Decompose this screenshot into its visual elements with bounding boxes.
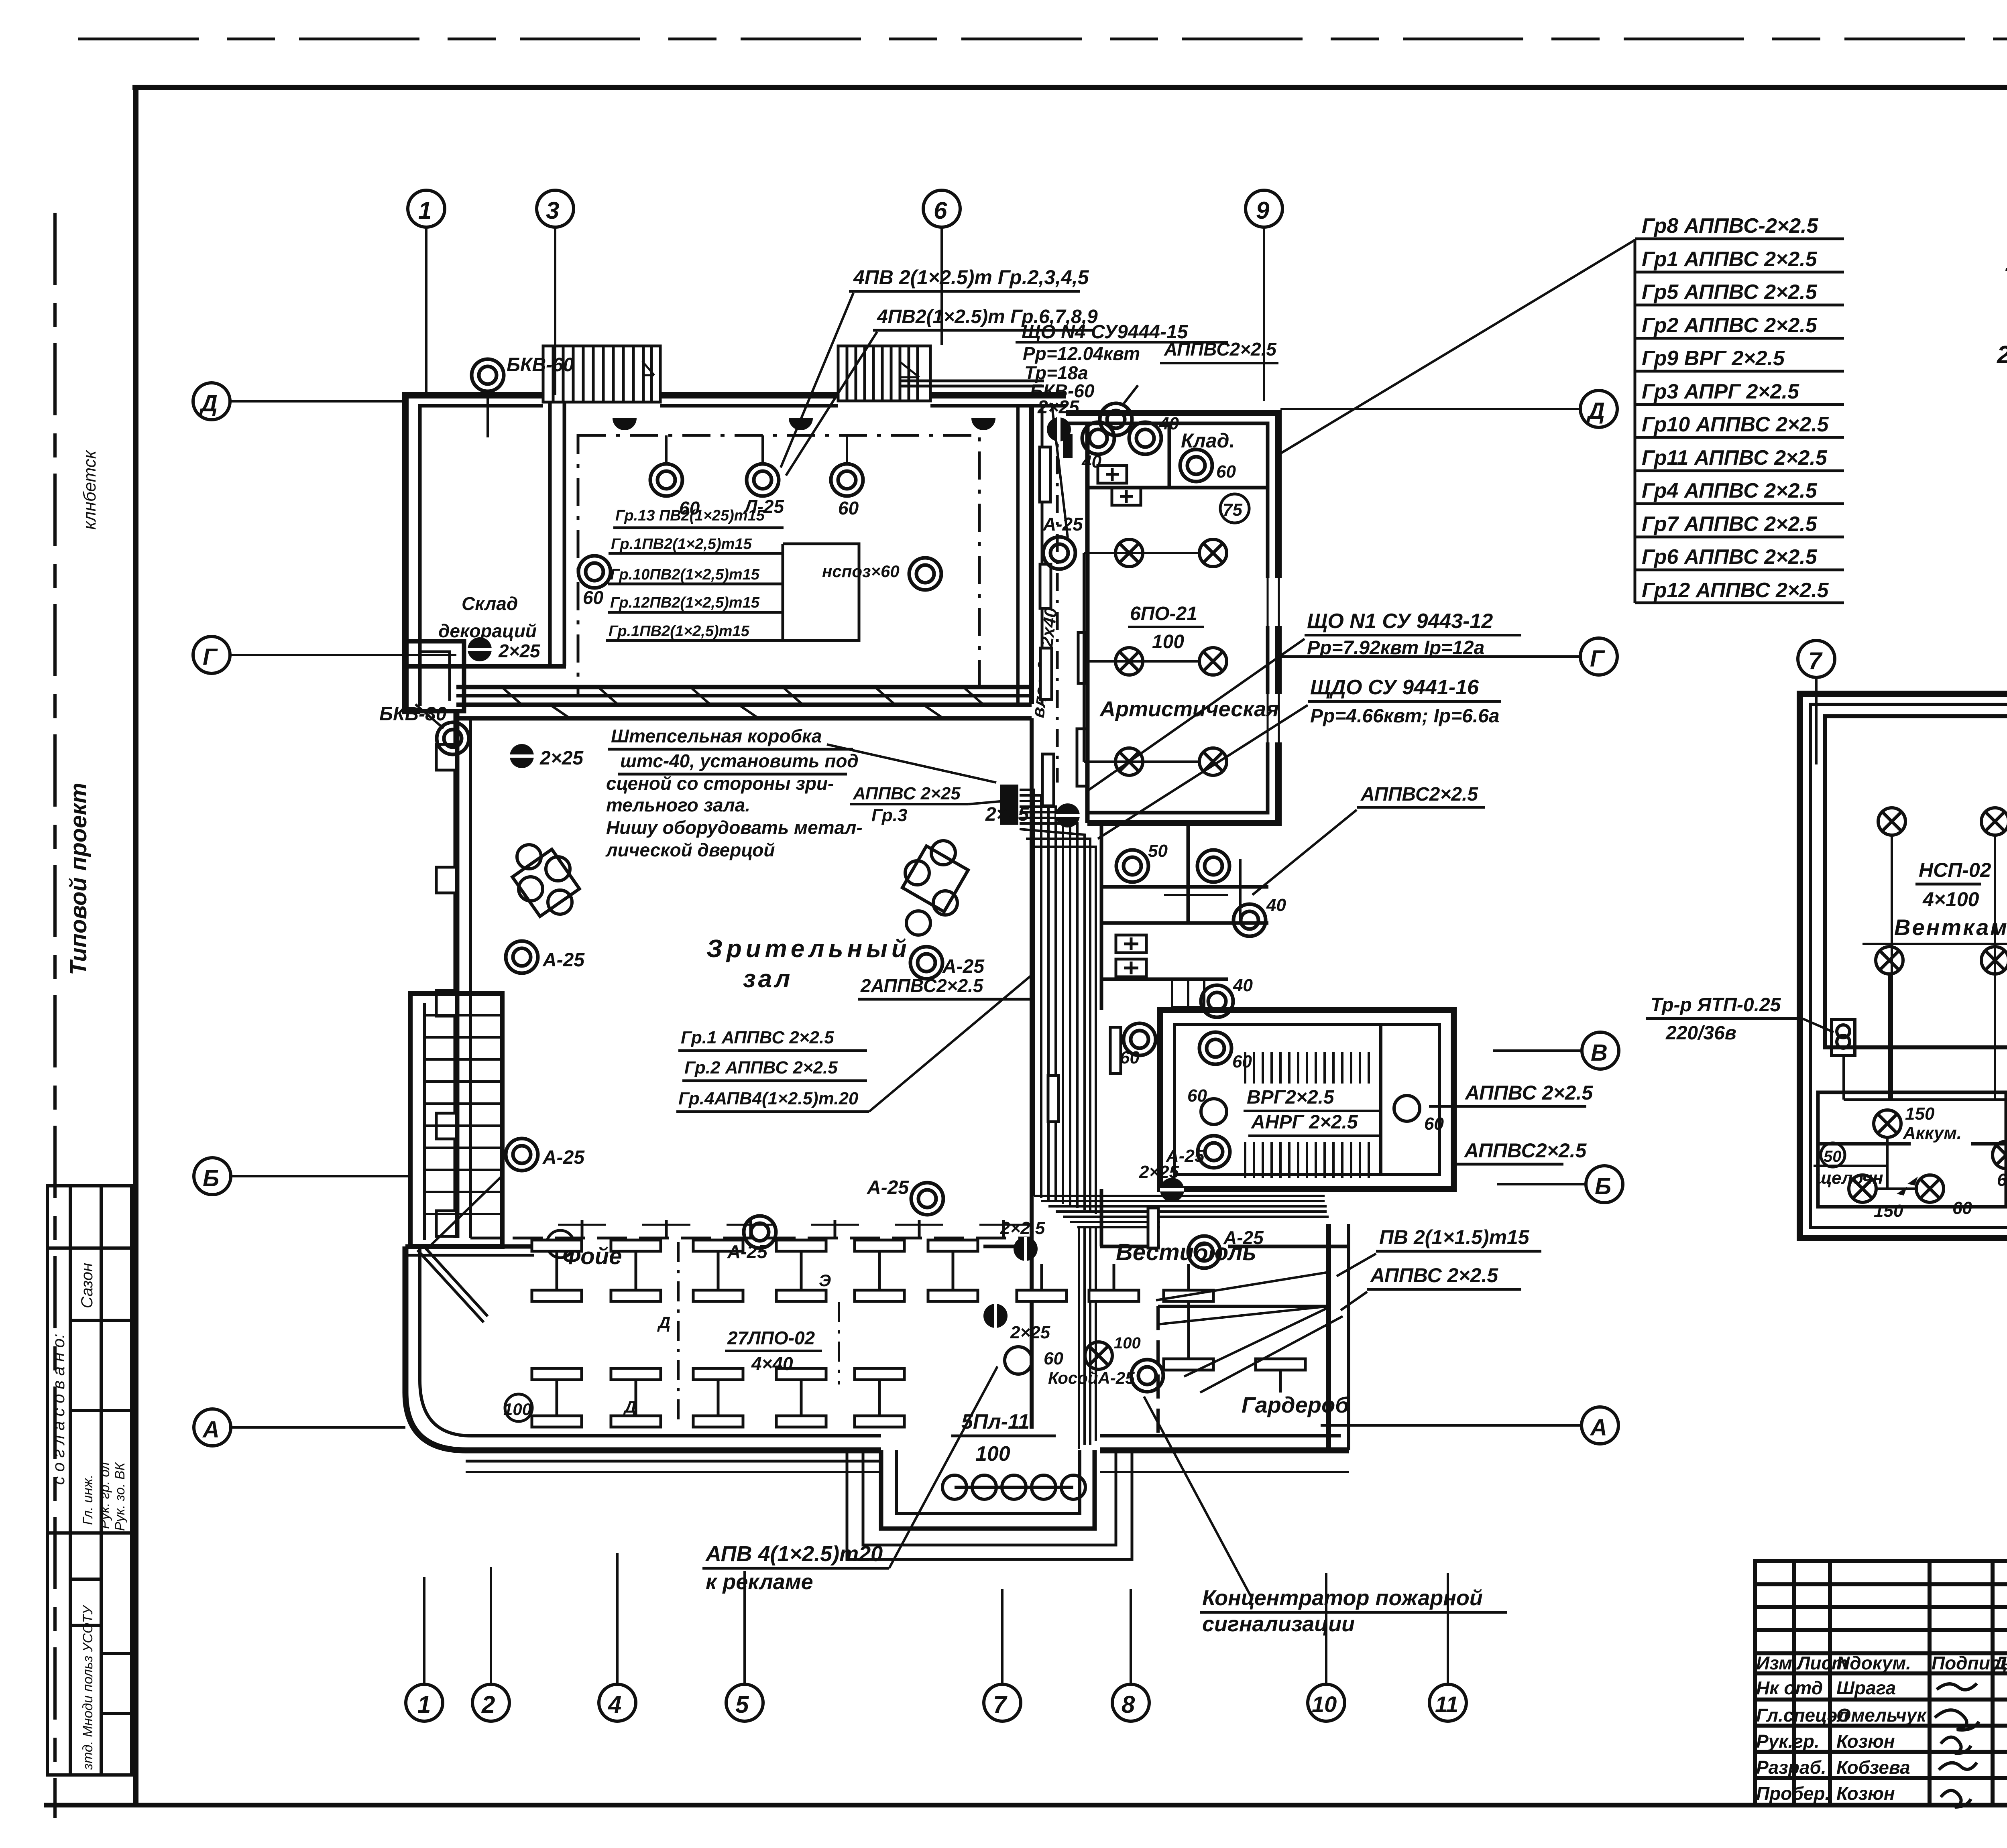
grid bubble 8 bottom bbox=[1112, 1589, 1149, 1721]
stage lamps bbox=[650, 464, 700, 518]
grid bubble 2 bottom bbox=[472, 1567, 509, 1721]
svg-text:Г: Г bbox=[1590, 646, 1605, 672]
wall left wing outer bbox=[405, 395, 543, 711]
wall stage right / corridor left bbox=[1032, 406, 1042, 704]
svg-text:Разраб.: Разраб. bbox=[1756, 1757, 1826, 1778]
svg-text:А-25: А-25 bbox=[1223, 1227, 1264, 1248]
svg-text:4: 4 bbox=[608, 1691, 621, 1718]
sklad dekoracii label bbox=[438, 593, 537, 641]
svg-text:к рекламе: к рекламе bbox=[706, 1570, 813, 1594]
svg-text:Козюн: Козюн bbox=[1836, 1731, 1895, 1752]
projector cluster right bbox=[902, 841, 968, 935]
svg-text:2. Спецификацию см. лист ЭЛ-5.: 2. Спецификацию см. лист ЭЛ-5. bbox=[1997, 341, 2007, 369]
svg-text:Гр.4АПВ4(1×2.5)т.20: Гр.4АПВ4(1×2.5)т.20 bbox=[678, 1089, 859, 1108]
frame bottom border bbox=[44, 1803, 2007, 1807]
basement lower-left room bbox=[1818, 1092, 2006, 1207]
svg-text:В: В bbox=[1591, 1040, 1608, 1066]
svg-text:40: 40 bbox=[1159, 414, 1179, 433]
svg-text:Г: Г bbox=[203, 644, 218, 670]
svg-text:А: А bbox=[202, 1417, 220, 1443]
grid bubble 10 bottom bbox=[1308, 1573, 1345, 1721]
svg-text:Сазон: Сазон bbox=[78, 1263, 96, 1308]
BKV-60 top left lamp bbox=[472, 354, 574, 437]
auditorium left wall bbox=[456, 711, 470, 1238]
svg-text:60: 60 bbox=[1120, 1048, 1140, 1067]
porch nested outline bbox=[847, 1450, 1132, 1559]
svg-text:сценой со стороны зри-: сценой со стороны зри- bbox=[606, 773, 834, 794]
svg-text:40: 40 bbox=[1233, 976, 1253, 995]
svg-text:50: 50 bbox=[1824, 1148, 1842, 1165]
grid bubble 11 bottom bbox=[1429, 1573, 1466, 1721]
left exterior stair bbox=[410, 994, 502, 1246]
left wing bottom protrusion bbox=[405, 641, 464, 711]
svg-text:11: 11 bbox=[1435, 1691, 1458, 1717]
vestibule label bbox=[1116, 1239, 1256, 1265]
plus boxes bbox=[1098, 466, 1141, 505]
grid bubble A right bbox=[1321, 1407, 1618, 1444]
svg-text:тельного зала.: тельного зала. bbox=[606, 795, 750, 815]
svg-text:Гр3 АПРГ 2×2.5: Гр3 АПРГ 2×2.5 bbox=[1642, 380, 1799, 403]
svg-text:75: 75 bbox=[1223, 500, 1242, 520]
label APV k reklame bbox=[702, 1366, 997, 1594]
svg-text:Гр4 АППВС 2×2.5: Гр4 АППВС 2×2.5 bbox=[1642, 479, 1818, 502]
projector cluster left bbox=[512, 845, 579, 917]
svg-text:Гр2 АППВС 2×2.5: Гр2 АППВС 2×2.5 bbox=[1642, 314, 1818, 337]
svg-text:Гр6 АППВС 2×2.5: Гр6 АППВС 2×2.5 bbox=[1642, 545, 1818, 569]
foyer circuit dashdot lines bbox=[678, 1242, 839, 1427]
svg-text:А-25: А-25 bbox=[727, 1241, 768, 1262]
svg-text:Пробер.: Пробер. bbox=[1756, 1783, 1830, 1804]
circle 100 foyer bbox=[503, 1394, 532, 1421]
auditorium group rows bbox=[676, 975, 1032, 1112]
foyer bottom wall bbox=[466, 1436, 881, 1461]
svg-text:60: 60 bbox=[1424, 1114, 1444, 1134]
svg-text:Тр-р ЯТП-0.25: Тр-р ЯТП-0.25 bbox=[1651, 994, 1781, 1016]
svg-text:Рук. зо. ВК: Рук. зо. ВК bbox=[112, 1462, 128, 1531]
svg-text:2×25: 2×25 bbox=[498, 640, 541, 661]
cable list rows text bbox=[1642, 214, 1829, 602]
grid bubble 7 bottom bbox=[984, 1589, 1021, 1721]
foyer lamp A-25 bbox=[727, 1216, 776, 1262]
label koncentrator bbox=[1144, 1397, 1507, 1636]
left margin rotated annotation bbox=[80, 449, 100, 530]
switch near stair bbox=[1139, 1162, 1184, 1202]
lamp BKV-60 right top bbox=[1100, 385, 1138, 435]
APPVS 2x25 gr3 label bbox=[673, 762, 686, 784]
svg-text:Гр.10ПВ2(1×2,5)т15: Гр.10ПВ2(1×2,5)т15 bbox=[610, 566, 760, 583]
middle rooms small furniture bbox=[1164, 859, 1240, 1007]
svg-text:2×25: 2×25 bbox=[1139, 1162, 1179, 1182]
svg-text:декораций: декораций bbox=[438, 620, 537, 641]
grid bubble G right bbox=[1280, 638, 1617, 675]
svg-text:Омельчук: Омельчук bbox=[1836, 1705, 1927, 1726]
left bottom approval table bbox=[47, 1186, 132, 1775]
label APPVS mid right bbox=[1252, 784, 1485, 895]
svg-text:ВРГ2×2.5: ВРГ2×2.5 bbox=[1247, 1087, 1335, 1108]
frame left border bbox=[133, 87, 138, 1806]
svg-text:АППВС 2×2.5: АППВС 2×2.5 bbox=[1464, 1082, 1593, 1104]
ventkamera room bbox=[1825, 716, 2007, 1047]
svg-text:Шрага: Шрага bbox=[1836, 1677, 1896, 1698]
grid bubble B left bbox=[194, 1158, 410, 1195]
svg-text:Козюн: Козюн bbox=[1836, 1783, 1895, 1804]
svg-text:Рр=4.66квт; Iр=6.6а: Рр=4.66квт; Iр=6.6а bbox=[1310, 705, 1500, 727]
switch arrows basement bbox=[1897, 1177, 1918, 1195]
label SCHO N1 bbox=[1089, 610, 1521, 790]
switch 2x25 sklad bbox=[468, 637, 541, 661]
small luminaires in corridor bbox=[1040, 447, 1158, 1248]
stage curtain dash-dot bbox=[578, 435, 979, 695]
svg-text:АПВ 4(1×2.5)т20: АПВ 4(1×2.5)т20 bbox=[705, 1542, 883, 1566]
svg-text:60: 60 bbox=[1187, 1086, 1207, 1106]
svg-text:Гр.1 АППВС 2×2.5: Гр.1 АППВС 2×2.5 bbox=[681, 1028, 834, 1047]
svg-text:лической дверцой: лической дверцой bbox=[605, 840, 775, 860]
ventkamera label bbox=[1862, 915, 2007, 944]
svg-text:4×100: 4×100 bbox=[1922, 888, 1979, 911]
svg-text:с о г л а с о в а н о:: с о г л а с о в а н о: bbox=[49, 1334, 68, 1485]
transformer label bbox=[1646, 994, 1834, 1044]
top labels 4PV bbox=[781, 266, 1098, 476]
title block texts bbox=[1756, 1653, 2007, 1804]
switch 2x25 mid corridor bbox=[985, 803, 1080, 827]
label APPVS bottom right bbox=[1341, 1264, 1521, 1310]
svg-text:Б: Б bbox=[203, 1165, 219, 1191]
partition sklad dekoracii bbox=[405, 403, 566, 666]
grid bubble G left bbox=[193, 636, 456, 673]
svg-text:Рук.гр.: Рук.гр. bbox=[1756, 1731, 1820, 1752]
svg-text:А: А bbox=[1590, 1415, 1607, 1441]
stair top-left hatch bbox=[543, 346, 660, 402]
artist labels bbox=[1128, 603, 1204, 653]
garderob partition bbox=[1158, 1306, 1329, 1436]
svg-text:А-25: А-25 bbox=[1042, 514, 1083, 535]
panel box dark 2 bbox=[1000, 785, 1018, 825]
svg-text:Б: Б bbox=[1595, 1173, 1611, 1199]
panel box SCHO N4 on wall bbox=[1063, 434, 1073, 458]
auditorium lamp A-25 upper-right bbox=[910, 947, 985, 979]
auditorium bottom dash line bbox=[470, 1237, 1032, 1240]
svg-text:7: 7 bbox=[1808, 647, 1823, 674]
grid bubble 3 top bbox=[537, 190, 574, 395]
svg-text:Аккум.: Аккум. bbox=[1903, 1123, 1962, 1143]
label 2APPVS bbox=[858, 975, 1032, 999]
svg-text:Д: Д bbox=[199, 390, 218, 417]
grid bubble 1 bottom bbox=[406, 1577, 443, 1721]
auditorium lamp A-25 lower-left bbox=[506, 1138, 585, 1171]
svg-text:АППВС 2×25: АППВС 2×25 bbox=[853, 784, 961, 803]
porch label 5PL-11 bbox=[951, 1410, 1056, 1466]
svg-text:АНРГ 2×2.5: АНРГ 2×2.5 bbox=[1251, 1112, 1358, 1133]
lamp bottom corridor bbox=[1005, 1347, 1063, 1374]
grid bubble 4 bottom bbox=[599, 1553, 636, 1721]
svg-text:клнбетск: клнбетск bbox=[80, 449, 100, 530]
grid bubble 1 top bbox=[408, 190, 445, 395]
svg-text:60: 60 bbox=[838, 498, 859, 518]
svg-text:сигнализации: сигнализации bbox=[1202, 1612, 1355, 1636]
vestibule top wall bbox=[1100, 1245, 1349, 1248]
schelochn lamps bbox=[1849, 1175, 1903, 1221]
schelochn labels bbox=[1814, 1143, 1887, 1188]
svg-text:ЩДО СУ 9441-16: ЩДО СУ 9441-16 bbox=[1310, 676, 1479, 699]
svg-text:Клад.: Клад. bbox=[1181, 429, 1235, 452]
wing right wall windows bbox=[1264, 578, 1282, 742]
svg-text:Гр.2 АППВС 2×2.5: Гр.2 АППВС 2×2.5 bbox=[684, 1058, 838, 1077]
switch 2x2.5 corridor bottom bbox=[1000, 1218, 1045, 1261]
svg-text:Д: Д bbox=[623, 1397, 636, 1416]
svg-text:Нишу оборудовать метал-: Нишу оборудовать метал- bbox=[606, 817, 863, 838]
svg-text:2×25: 2×25 bbox=[1037, 396, 1080, 417]
svg-text:9: 9 bbox=[1256, 197, 1270, 224]
svg-text:Гр5 АППВС 2×2.5: Гр5 АППВС 2×2.5 bbox=[1642, 281, 1818, 304]
svg-text:АППВС2×2.5: АППВС2×2.5 bbox=[1164, 339, 1277, 360]
svg-text:Гр1 АППВС 2×2.5: Гр1 АППВС 2×2.5 bbox=[1642, 248, 1818, 271]
proscenium wall band bbox=[456, 687, 1032, 718]
svg-text:ЩО N4 СУ9444-15: ЩО N4 СУ9444-15 bbox=[1022, 321, 1189, 343]
frame top border bbox=[132, 85, 2007, 90]
transformer box bbox=[1832, 1019, 1855, 1055]
stair block V outer bbox=[1160, 1010, 1454, 1189]
svg-text:Рр=12.04квт: Рр=12.04квт bbox=[1023, 343, 1140, 364]
vestibule bottom wall bbox=[1100, 1436, 1349, 1450]
top right wing lamps bbox=[1081, 422, 1114, 472]
wall top right of stage bbox=[930, 395, 1066, 406]
svg-text:2: 2 bbox=[481, 1691, 495, 1718]
bottom leader lines cluster bbox=[1156, 1272, 1343, 1393]
svg-text:Гардероб: Гардероб bbox=[1242, 1392, 1350, 1417]
ventkamera wiring stems bbox=[1844, 835, 2007, 1100]
svg-text:Гр.1ПВ2(1×2,5)т15: Гр.1ПВ2(1×2,5)т15 bbox=[611, 536, 752, 553]
note text block shtepselnaya bbox=[605, 726, 863, 860]
stage wiring dashes bbox=[666, 435, 847, 464]
ventkamera lamps bbox=[1878, 808, 1905, 835]
svg-text:Типовой проект: Типовой проект bbox=[65, 783, 92, 975]
switch 2x25 top center bbox=[1037, 396, 1080, 441]
svg-text:Гр.12ПВ2(1×2,5)т15: Гр.12ПВ2(1×2,5)т15 bbox=[610, 594, 760, 611]
partition klad room bbox=[1087, 423, 1268, 488]
svg-text:60: 60 bbox=[1232, 1052, 1252, 1071]
A-25 lamp top corridor bbox=[1042, 514, 1083, 569]
svg-text:Гр12 АППВС 2×2.5: Гр12 АППВС 2×2.5 bbox=[1642, 579, 1829, 602]
label PV2 1x1.5 bbox=[1337, 1226, 1541, 1276]
ramp lines bottom-left bbox=[417, 1248, 488, 1322]
foyer luminaires row1 bbox=[532, 1240, 582, 1301]
svg-text:Рук. гр. ол: Рук. гр. ол bbox=[97, 1462, 112, 1529]
note 1 line 1 bbox=[2005, 249, 2007, 276]
svg-text:2×25: 2×25 bbox=[985, 804, 1029, 825]
sheet outer dashed top edge bbox=[78, 38, 2007, 41]
stair V lamps bbox=[1187, 1086, 1227, 1124]
svg-text:Гр.13 ПВ2(1×25)т15: Гр.13 ПВ2(1×25)т15 bbox=[615, 507, 765, 524]
auditorium lamp A-25 lower-right bbox=[867, 1177, 943, 1215]
svg-text:8: 8 bbox=[1122, 1691, 1135, 1718]
svg-text:Нк отд: Нк отд bbox=[1756, 1677, 1823, 1698]
svg-text:7: 7 bbox=[993, 1691, 1008, 1718]
vestibule right wall bbox=[1329, 1224, 1349, 1450]
svg-text:1. Примечания, условные обозна: 1. Примечания, условные обозначения bbox=[2005, 249, 2007, 276]
svg-text:А-25: А-25 bbox=[867, 1177, 909, 1198]
svg-text:Nдокум.: Nдокум. bbox=[1836, 1653, 1911, 1673]
corridor vertical text vlso bbox=[1028, 606, 1061, 719]
svg-text:Гр10 АППВС 2×2.5: Гр10 АППВС 2×2.5 bbox=[1642, 413, 1829, 436]
switch 2x25 left bbox=[510, 744, 584, 769]
wall top middle bbox=[660, 395, 838, 406]
svg-text:220/36в: 220/36в bbox=[1665, 1023, 1736, 1044]
labels SCHO N4 bbox=[1016, 321, 1278, 538]
svg-text:ЩО N1 СУ 9443-12: ЩО N1 СУ 9443-12 bbox=[1307, 610, 1493, 633]
artist room lamps bbox=[1115, 539, 1143, 567]
foyer label bbox=[562, 1243, 622, 1269]
svg-text:Артистическая: Артистическая bbox=[1099, 697, 1279, 721]
foyer top wall bbox=[405, 1246, 1032, 1255]
lamp kosa bbox=[1048, 1334, 1163, 1392]
svg-text:100: 100 bbox=[503, 1400, 531, 1419]
auditorium labels bbox=[706, 935, 911, 993]
label SCHDO bbox=[1098, 676, 1501, 839]
svg-text:4×40: 4×40 bbox=[751, 1353, 793, 1374]
svg-text:Гл.спецэл: Гл.спецэл bbox=[1756, 1705, 1849, 1726]
svg-text:50: 50 bbox=[1148, 841, 1168, 861]
terrace line below foyer bbox=[466, 1471, 1349, 1473]
grid bubble 6 top bbox=[923, 190, 960, 345]
svg-text:Д: Д bbox=[657, 1313, 670, 1332]
canopy line top bbox=[901, 381, 1044, 386]
svg-text:1: 1 bbox=[417, 1691, 431, 1718]
svg-text:Зрительный: Зрительный bbox=[706, 935, 911, 963]
akkum lamp bbox=[1874, 1104, 1962, 1143]
foyer left wall rounded bbox=[405, 1246, 472, 1450]
svg-text:БКВ-60: БКВ-60 bbox=[507, 354, 574, 376]
foyer label 27LPO bbox=[725, 1328, 822, 1374]
switch bottom corridor bbox=[983, 1304, 1050, 1342]
svg-text:Гр.1ПВ2(1×2,5)т15: Гр.1ПВ2(1×2,5)т15 bbox=[609, 623, 750, 640]
stair block V hatch bbox=[1245, 1025, 1381, 1178]
signatures squiggles bbox=[1935, 1683, 1979, 1807]
svg-text:НСП-02: НСП-02 bbox=[1919, 859, 1991, 881]
right wing outer wall bbox=[1066, 413, 1278, 823]
svg-text:60: 60 bbox=[1044, 1349, 1063, 1368]
svg-text:нспоз×60: нспоз×60 bbox=[822, 562, 900, 581]
stage group labels bbox=[613, 507, 784, 528]
middle rooms lamps bbox=[1116, 841, 1168, 882]
svg-text:27ЛПО-02: 27ЛПО-02 bbox=[727, 1328, 815, 1348]
auditorium lamp A-25 upper-left bbox=[506, 941, 585, 973]
note 2 bbox=[1997, 341, 2007, 369]
svg-text:150: 150 bbox=[1874, 1201, 1903, 1221]
BKV-80 lamp bottom left bbox=[379, 703, 469, 754]
stair top second hatch bbox=[838, 346, 930, 401]
grid bubble 9 top bbox=[1246, 190, 1282, 401]
svg-text:Д: Д bbox=[1586, 398, 1605, 424]
grid bubble B2 right bbox=[1497, 1166, 1623, 1203]
garderob label bbox=[1242, 1392, 1350, 1417]
svg-text:Гр11 АППВС 2×2.5: Гр11 АППВС 2×2.5 bbox=[1642, 446, 1828, 470]
grid bubble D right bbox=[1280, 390, 1617, 427]
svg-text:А-25: А-25 bbox=[942, 956, 985, 977]
svg-text:5: 5 bbox=[735, 1691, 749, 1718]
svg-text:Дата: Дата bbox=[1992, 1653, 2007, 1673]
auditorium bottom tick marks bbox=[558, 1220, 1028, 1238]
svg-text:Штепсельная коробка: Штепсельная коробка bbox=[611, 726, 822, 746]
stage ceiling half-disc symbols bbox=[613, 418, 995, 430]
svg-text:Гл. инж.: Гл. инж. bbox=[80, 1474, 96, 1525]
svg-text:АППВС2×2.5: АППВС2×2.5 bbox=[1360, 784, 1478, 805]
basement outer wall bbox=[1800, 694, 2007, 1238]
svg-text:60: 60 bbox=[1997, 1170, 2007, 1190]
left table rotated texts bbox=[49, 1334, 68, 1485]
svg-text:2АППВС2×2.5: 2АППВС2×2.5 bbox=[860, 975, 984, 996]
foyer luminaires row2 bbox=[532, 1368, 582, 1427]
svg-text:60: 60 bbox=[583, 587, 604, 608]
vestibule lamp A-25 bbox=[1188, 1227, 1264, 1268]
cable list leader to plan bbox=[1280, 240, 1635, 453]
svg-text:Гр9 ВРГ 2×2.5: Гр9 ВРГ 2×2.5 bbox=[1642, 347, 1785, 370]
svg-text:штс-40, установить под: штс-40, установить под bbox=[620, 750, 859, 771]
basement grid bubble 7 bbox=[1798, 640, 1835, 764]
svg-text:100: 100 bbox=[975, 1442, 1010, 1466]
NSP label bbox=[1915, 859, 1991, 911]
grid bubble A left bbox=[194, 1409, 405, 1446]
riser cable fan from junction bbox=[1020, 790, 1096, 1214]
circle 100 auditorium bbox=[545, 1230, 574, 1258]
corridor walls center bbox=[1018, 406, 1101, 1429]
svg-text:Гр8 АППВС-2×2.5: Гр8 АППВС-2×2.5 bbox=[1642, 214, 1819, 238]
corridor axis dash-dot bbox=[1056, 417, 1059, 783]
svg-text:Концентратор пожарной: Концентратор пожарной bbox=[1202, 1586, 1483, 1610]
number 75 circle bbox=[1220, 494, 1249, 523]
svg-text:Э: Э bbox=[819, 1271, 831, 1290]
left margin label: Типовой проект bbox=[65, 783, 92, 975]
svg-text:60: 60 bbox=[1952, 1198, 1972, 1218]
svg-text:Изм.Лист: Изм.Лист bbox=[1756, 1653, 1848, 1673]
svg-text:А-25: А-25 bbox=[542, 1147, 585, 1168]
svg-text:40: 40 bbox=[1266, 895, 1286, 915]
svg-text:3: 3 bbox=[546, 197, 559, 224]
svg-text:зал: зал bbox=[743, 965, 792, 993]
svg-text:100: 100 bbox=[1114, 1334, 1141, 1352]
svg-text:Кобзева: Кобзева bbox=[1836, 1757, 1910, 1778]
svg-text:2×2.5: 2×2.5 bbox=[1000, 1218, 1045, 1238]
svg-text:2×25: 2×25 bbox=[1010, 1323, 1050, 1342]
svg-text:6: 6 bbox=[934, 197, 947, 224]
svg-text:100: 100 bbox=[1152, 631, 1184, 653]
svg-text:Склад: Склад bbox=[462, 593, 518, 614]
svg-text:150: 150 bbox=[1905, 1104, 1935, 1124]
svg-text:АППВС 2×2.5: АППВС 2×2.5 bbox=[1370, 1264, 1498, 1287]
artist room wiring bbox=[1084, 553, 1200, 762]
svg-text:2×25: 2×25 bbox=[539, 748, 584, 769]
grid bubble D left bbox=[193, 383, 405, 420]
svg-text:АППВС2×2.5: АППВС2×2.5 bbox=[1464, 1139, 1587, 1162]
svg-text:Гр.3: Гр.3 bbox=[871, 805, 907, 825]
svg-text:ПВ 2(1×1.5)т15: ПВ 2(1×1.5)т15 bbox=[1379, 1226, 1530, 1248]
basement mid lamps bbox=[1993, 1141, 2007, 1190]
svg-text:1: 1 bbox=[418, 197, 432, 224]
middle rooms partitions bbox=[1101, 823, 1268, 979]
svg-text:4ПВ 2(1×2.5)т Гр.2,3,4,5: 4ПВ 2(1×2.5)т Гр.2,3,4,5 bbox=[853, 266, 1089, 289]
svg-text:Венткамера: Венткамера bbox=[1894, 915, 2007, 940]
riser branch to vestibule bbox=[1034, 1196, 1329, 1449]
sheet left dashed edge bbox=[53, 213, 57, 1818]
svg-text:А-25: А-25 bbox=[542, 949, 585, 971]
auditorium pilasters bbox=[436, 744, 456, 1236]
vestibule luminaires bbox=[1017, 1264, 1067, 1301]
svg-text:Рр=7.92квт Iр=12а: Рр=7.92квт Iр=12а bbox=[1307, 637, 1484, 659]
svg-text:6ПО-21: 6ПО-21 bbox=[1130, 603, 1197, 624]
svg-text:КосойА-25: КосойА-25 bbox=[1048, 1368, 1135, 1387]
svg-text:10: 10 bbox=[1312, 1691, 1337, 1717]
grid bubble 5 bottom bbox=[726, 1571, 763, 1721]
porch circles bbox=[942, 1475, 1085, 1499]
